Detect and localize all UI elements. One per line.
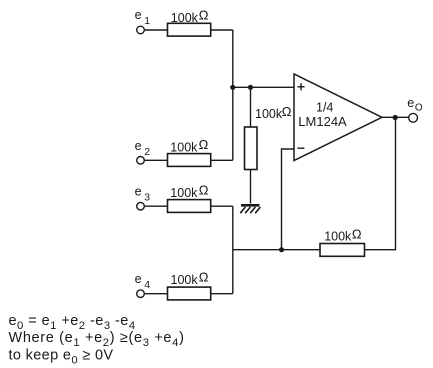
terminal e4: [137, 290, 145, 298]
svg-text:100k: 100k: [171, 273, 199, 287]
wire output: [382, 116, 409, 118]
svg-text:Ω: Ω: [199, 137, 209, 152]
junction dot node D (inverting node): [279, 247, 284, 252]
svg-text:Where (e1 +e2) ≥(e3 +e4): Where (e1 +e2) ≥(e3 +e4): [9, 330, 185, 349]
svg-text:e: e: [135, 185, 142, 199]
value label 100kΩ (R4): [171, 270, 209, 287]
terminal e2: [137, 157, 145, 165]
wire R5 to ground: [250, 170, 252, 204]
wire bus C vertical (e3/e4 bus): [232, 206, 234, 294]
equation line 1: [9, 313, 136, 332]
wire node A to noninverting input: [233, 86, 295, 88]
svg-text:1: 1: [144, 15, 150, 27]
svg-text:3: 3: [144, 192, 150, 204]
svg-text:Ω: Ω: [199, 8, 209, 23]
junction dot node E (output): [393, 115, 398, 120]
wire bus C to feedback node: [233, 249, 320, 251]
label e2: [135, 139, 151, 158]
svg-text:e: e: [407, 96, 414, 110]
resistor R2 100kΩ: [168, 154, 211, 167]
terminal e3: [137, 202, 145, 210]
wire R4 to bus C: [211, 293, 233, 295]
svg-text:100k: 100k: [170, 186, 198, 200]
label e0: [407, 96, 423, 114]
svg-text:LM124A: LM124A: [298, 114, 347, 129]
resistor R1 100kΩ: [168, 23, 211, 36]
svg-text:100k: 100k: [324, 230, 352, 244]
resistor R6 100kΩ (feedback): [320, 244, 365, 257]
svg-text:e: e: [135, 139, 142, 153]
wire e4 to R4: [144, 293, 167, 295]
svg-text:e: e: [135, 272, 142, 286]
wire node B down to R5: [250, 87, 252, 127]
wire e1 to R1: [144, 29, 167, 31]
value label 100kΩ (R5): [255, 104, 292, 121]
svg-text:to keep e0 ≥ 0V: to keep e0 ≥ 0V: [9, 348, 114, 367]
resistor R3 100kΩ: [168, 200, 211, 213]
wire R2 to bus A: [211, 159, 233, 161]
resistor R4 100kΩ: [168, 287, 211, 300]
svg-text:Ω: Ω: [352, 226, 362, 241]
wire inverting input to node D: [282, 149, 295, 250]
wire e3 to R3: [144, 205, 167, 207]
value label 100kΩ (R3): [170, 182, 208, 199]
terminal e0: [409, 113, 418, 122]
svg-text:e: e: [135, 8, 142, 22]
equation line 2: [9, 330, 185, 349]
terminal e1: [137, 26, 145, 34]
wire R3 to bus C: [211, 205, 233, 207]
wire bus A vertical (e1/e2 summing bus): [232, 30, 234, 160]
label e1: [135, 8, 151, 27]
op-amp U1 1/4 LM124A: [294, 74, 382, 161]
equation line 3: [9, 348, 114, 367]
svg-text:4: 4: [144, 279, 150, 291]
value label 100kΩ (R1): [171, 8, 209, 25]
wire R6 to output node: [365, 117, 396, 249]
svg-text:2: 2: [144, 146, 150, 158]
svg-text:Ω: Ω: [282, 104, 292, 119]
svg-text:100k: 100k: [255, 107, 283, 121]
resistor R5 100kΩ (to ground): [245, 127, 258, 170]
wire R1 to bus A: [211, 29, 233, 31]
label 1/4: [316, 101, 333, 115]
value label 100kΩ (R6): [324, 226, 362, 243]
svg-text:100k: 100k: [170, 140, 198, 154]
svg-text:Ω: Ω: [199, 182, 209, 197]
junction dot node B (top of R5): [248, 85, 253, 90]
label e4: [135, 272, 151, 291]
junction dot node A: [230, 85, 235, 90]
value label 100kΩ (R2): [170, 137, 208, 154]
wire e2 to R2: [144, 159, 167, 161]
label LM124A: [298, 114, 347, 129]
svg-text:1/4: 1/4: [316, 101, 333, 115]
svg-text:O: O: [415, 103, 423, 114]
label e3: [135, 185, 151, 204]
svg-text:Ω: Ω: [199, 270, 209, 285]
svg-text:100k: 100k: [171, 11, 199, 25]
ground: [240, 205, 260, 213]
